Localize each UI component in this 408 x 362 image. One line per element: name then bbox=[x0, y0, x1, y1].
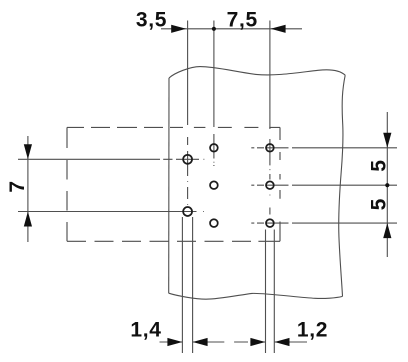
hole P2 (right column middle) bbox=[266, 181, 274, 189]
vertical centerline through hole M1 bbox=[213, 134, 215, 166]
PCB outline bottom edge (wavy break line) bbox=[169, 293, 343, 299]
left dimension arrow pointing up bbox=[24, 212, 32, 227]
svg-text:7: 7 bbox=[6, 180, 29, 192]
dashed footprint rectangle bottom edge bbox=[67, 240, 280, 242]
right dimension arrow pointing up bbox=[383, 223, 391, 238]
top dimension line bbox=[161, 28, 302, 30]
extension lines (hole tangents) for 1,2 bbox=[266, 230, 275, 354]
PCB outline right edge (wavy break line) bbox=[339, 75, 345, 296]
bottom arrow 2 pointing left bbox=[193, 338, 208, 346]
svg-text:7,5: 7,5 bbox=[227, 9, 258, 32]
bottom dimension line segments bbox=[160, 341, 308, 343]
top dimension dot at C2 bbox=[212, 27, 216, 31]
PCB outline left edge bbox=[168, 78, 170, 293]
svg-text:5: 5 bbox=[368, 159, 391, 171]
horizontal centerline through hole H2 (row RL2) bbox=[18, 211, 204, 213]
dashed footprint rectangle right edge bbox=[279, 127, 281, 241]
vertical centerline through hole H1 bbox=[187, 137, 189, 205]
right dimension dot at R2 bbox=[385, 183, 389, 187]
bottom arrow 1 pointing right bbox=[167, 338, 182, 346]
extension lines (hole tangents) for 1,4 bbox=[182, 217, 192, 353]
hole P1 (right column top, 1.2 mm) bbox=[266, 144, 274, 152]
extension line from top dimension at column C3 bbox=[269, 21, 271, 130]
hole M1 (middle column top) bbox=[210, 144, 218, 152]
svg-text:3,5: 3,5 bbox=[136, 9, 167, 32]
dashed footprint rectangle top edge bbox=[67, 126, 280, 128]
horizontal centerline through hole H1 (row RL1) bbox=[18, 158, 204, 160]
right dimension arrow pointing down bbox=[383, 133, 391, 148]
hole M3 (middle column bottom) bbox=[210, 219, 218, 227]
extension line from top dimension at column C2 bbox=[213, 21, 215, 128]
horizontal centerline row R1 with extension to right dimension bbox=[251, 147, 397, 149]
left dimension arrow pointing down bbox=[24, 144, 32, 159]
top dimension arrow at C1 pointing right bbox=[171, 25, 186, 33]
bottom arrow 3 pointing right bbox=[250, 338, 265, 346]
hole M2 (middle column middle) bbox=[210, 181, 218, 189]
horizontal centerline row R3 with extension to right dimension bbox=[251, 222, 397, 224]
top dimension arrow at C3 pointing left bbox=[271, 25, 286, 33]
svg-text:5: 5 bbox=[368, 198, 391, 210]
extension line from top dimension at column C1 bbox=[187, 21, 189, 126]
dashed footprint rectangle left edge bbox=[66, 127, 68, 241]
svg-text:1,2: 1,2 bbox=[297, 318, 328, 341]
vertical centerline through hole R1col bbox=[269, 139, 271, 215]
bottom arrow 4 pointing left bbox=[275, 338, 290, 346]
PCB outline top edge (wavy break line) bbox=[169, 67, 345, 78]
hole H2 (1.4 mm, left bottom) bbox=[183, 207, 192, 216]
right dimension line for 5 and 5 bbox=[386, 112, 388, 257]
svg-text:1,4: 1,4 bbox=[130, 318, 161, 341]
hole H1 (1.4 mm, left top) bbox=[183, 155, 192, 164]
horizontal centerline row R2 with extension to right dimension bbox=[251, 184, 397, 186]
left dimension line for 7 bbox=[27, 136, 29, 242]
hole P3 (right column bottom) bbox=[266, 219, 274, 227]
